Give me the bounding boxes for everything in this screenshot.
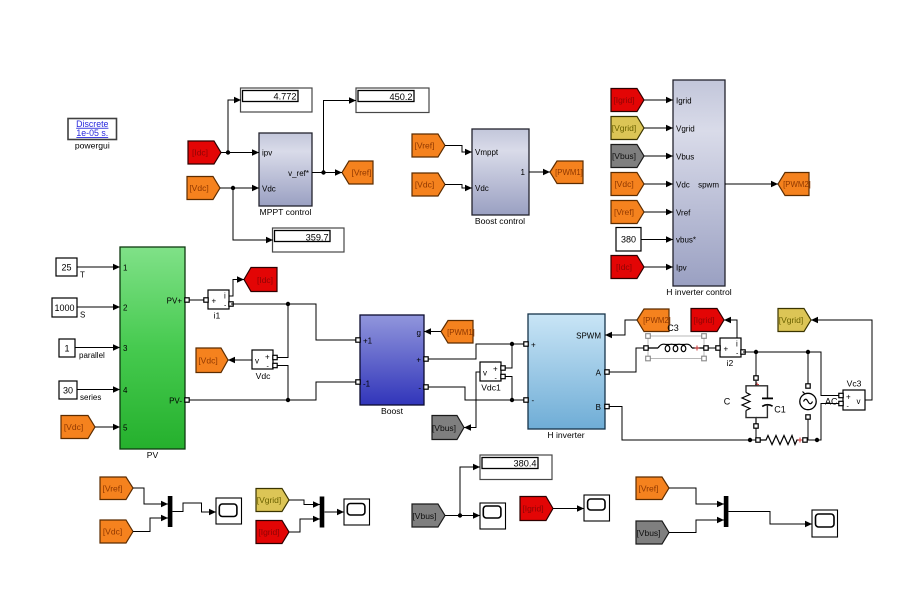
wire i2 minus to Vc3 plus (top rail) bbox=[743, 350, 839, 396]
constant 30 (series) bbox=[59, 381, 120, 402]
svg-text:2: 2 bbox=[123, 303, 128, 312]
from tag [Vdc] (Boost control) bbox=[412, 173, 445, 196]
current measurement i2 bbox=[716, 338, 745, 368]
from tag [Vref] (Boost control) bbox=[412, 134, 445, 157]
wire H inverter B to bottom rail bbox=[609, 407, 756, 443]
wire mux1 to scope1 bbox=[172, 503, 216, 515]
svg-text:[Vref]: [Vref] bbox=[639, 484, 659, 494]
svg-text:[Vgrid]: [Vgrid] bbox=[257, 495, 282, 505]
svg-text:MPPT control: MPPT control bbox=[260, 207, 312, 217]
wire Boost control out to PWM1 bbox=[529, 169, 550, 176]
wire Vdc1 v to [Vbus] bbox=[464, 372, 480, 431]
constant 380 bbox=[616, 228, 673, 252]
svg-text:+: + bbox=[846, 392, 851, 401]
scope 4 bbox=[584, 495, 610, 521]
svg-text:[Vgrid]: [Vgrid] bbox=[779, 315, 804, 325]
current measurement i1 bbox=[204, 290, 233, 321]
display 450.2 bbox=[356, 88, 429, 113]
from tag [Igrid] (scope group 2) bbox=[256, 516, 320, 544]
svg-text:parallel: parallel bbox=[79, 351, 105, 360]
wire i1 minus to bus with taps bbox=[231, 302, 356, 358]
scope 3 bbox=[480, 503, 506, 529]
voltage measurement Vdc bbox=[252, 350, 277, 381]
from tag [Igrid] (H ctrl) bbox=[611, 89, 673, 112]
display 4.772 bbox=[241, 88, 313, 112]
svg-text:[Idc]: [Idc] bbox=[616, 262, 632, 272]
from tag [Vgrid] (scope group 2) bbox=[256, 489, 320, 512]
voltage measurement Vdc1 bbox=[480, 362, 505, 393]
from tag [Vref] (H ctrl) bbox=[611, 201, 673, 224]
svg-text:[Igrid]: [Igrid] bbox=[613, 95, 634, 105]
svg-text:S: S bbox=[80, 311, 85, 320]
svg-text:[Idc]: [Idc] bbox=[192, 148, 208, 158]
wire PV- to bus bbox=[189, 366, 356, 403]
svg-text:[Idc]: [Idc] bbox=[257, 275, 273, 285]
svg-text:powergui: powergui bbox=[75, 141, 110, 151]
goto tag [Vgrid] (Vc3 out) bbox=[778, 309, 811, 332]
svg-text:+: + bbox=[493, 364, 498, 373]
svg-text:ipv: ipv bbox=[262, 149, 272, 158]
svg-text:i: i bbox=[736, 339, 738, 348]
svg-text:+: + bbox=[416, 355, 421, 364]
svg-text:4: 4 bbox=[123, 386, 128, 395]
wire Vc3 v to [Vgrid] bbox=[811, 317, 872, 400]
svg-text:SPWM: SPWM bbox=[576, 331, 601, 340]
svg-text:[Vdc]: [Vdc] bbox=[189, 183, 208, 193]
svg-text:[PWM1]: [PWM1] bbox=[555, 168, 583, 177]
from tag [Vref] (scope group 4) bbox=[636, 477, 724, 507]
subsystem Boost control bbox=[472, 129, 529, 226]
wire i2 signal to [Igrid] bbox=[724, 317, 737, 338]
from tag [Vdc] (PV input 5) bbox=[61, 416, 120, 439]
goto tag [Idc] (i1 out) bbox=[244, 268, 277, 292]
svg-text:spwm: spwm bbox=[698, 180, 719, 189]
svg-text:i2: i2 bbox=[727, 358, 734, 368]
wire mux2 to scope2 bbox=[324, 509, 344, 516]
scope 5 bbox=[812, 510, 838, 537]
from tag [Vbus] (display/scope group 3) bbox=[412, 504, 445, 527]
svg-text:Vdc: Vdc bbox=[262, 185, 276, 194]
from tag [Vbus] (scope group 4) bbox=[636, 517, 724, 544]
wire Boost - to H inverter - bbox=[428, 377, 526, 403]
goto tag [Vref] (MPPT out) bbox=[342, 161, 373, 184]
from tag [Vref] (scope group 1) bbox=[100, 477, 168, 507]
display 359.7 bbox=[273, 228, 345, 252]
svg-text:C3: C3 bbox=[667, 323, 679, 333]
svg-text:vbus*: vbus* bbox=[676, 236, 696, 245]
scope 1 bbox=[216, 498, 242, 524]
constant 25 (T) bbox=[56, 258, 120, 280]
wire H inverter A to C3 bbox=[609, 348, 644, 372]
svg-text:+: + bbox=[212, 297, 217, 306]
scope 2 bbox=[344, 499, 370, 525]
svg-text:[Vbus]: [Vbus] bbox=[636, 528, 660, 538]
constant 1 (parallel) bbox=[59, 339, 120, 360]
svg-text:380: 380 bbox=[621, 235, 636, 245]
svg-text:450.2: 450.2 bbox=[390, 92, 413, 102]
subsystem H inverter control bbox=[666, 80, 732, 297]
svg-text:Vdc1: Vdc1 bbox=[481, 383, 501, 393]
from tag [PWM2] (H inverter SPWM) bbox=[605, 309, 671, 338]
svg-text:[PWM2]: [PWM2] bbox=[783, 180, 811, 189]
svg-text:[Vref]: [Vref] bbox=[614, 207, 634, 217]
svg-text:-1: -1 bbox=[363, 379, 371, 388]
svg-text:PV-: PV- bbox=[169, 396, 182, 405]
AC source bbox=[800, 384, 838, 419]
wire Vdc to Boost control bbox=[445, 185, 472, 192]
mux 1 bbox=[168, 496, 173, 527]
svg-text:1: 1 bbox=[521, 168, 526, 177]
svg-text:Vdc: Vdc bbox=[676, 181, 690, 190]
bottom rail right segment to Vc3 minus bbox=[807, 404, 839, 443]
svg-text:359.7: 359.7 bbox=[306, 232, 329, 242]
svg-text:+1: +1 bbox=[363, 336, 373, 345]
svg-text:[Vdc]: [Vdc] bbox=[614, 179, 633, 189]
svg-text:Vmppt: Vmppt bbox=[475, 148, 499, 157]
svg-text:g: g bbox=[417, 328, 421, 337]
svg-text:Vdc: Vdc bbox=[475, 184, 489, 193]
svg-text:[Vdc]: [Vdc] bbox=[103, 527, 122, 537]
svg-text:[Vdc]: [Vdc] bbox=[64, 422, 83, 432]
svg-text:v: v bbox=[857, 397, 861, 406]
wire v_ref* to [Vref] with branch to display 450.2 bbox=[312, 97, 356, 176]
wire mux3 to scope5 bbox=[728, 512, 812, 528]
svg-text:380.4: 380.4 bbox=[514, 459, 537, 469]
wire PV+ to i1 bbox=[189, 299, 204, 301]
inductor C3 bbox=[644, 323, 708, 352]
goto tag [Vdc] (Vdc meas out) bbox=[196, 348, 228, 373]
svg-text:Vgrid: Vgrid bbox=[676, 125, 695, 134]
svg-text:4.772: 4.772 bbox=[274, 92, 297, 102]
svg-text:[Vref]: [Vref] bbox=[415, 141, 435, 151]
goto tag [Vbus] (Vdc1 out) bbox=[432, 416, 464, 440]
wire Vdc v out to [Vdc] bbox=[228, 357, 252, 364]
subsystem PV bbox=[120, 247, 189, 460]
svg-text:i: i bbox=[224, 291, 226, 300]
svg-text:B: B bbox=[596, 403, 601, 412]
svg-text:+: + bbox=[531, 340, 536, 349]
wires Vbus to display 380.4 and scope3 bbox=[445, 464, 480, 519]
svg-text:A: A bbox=[596, 368, 602, 377]
svg-text:-: - bbox=[418, 383, 421, 392]
svg-text:[Igrid]: [Igrid] bbox=[258, 527, 279, 537]
svg-text:+: + bbox=[265, 352, 270, 361]
svg-text:AC: AC bbox=[825, 397, 838, 407]
svg-text:1: 1 bbox=[123, 263, 128, 272]
svg-text:[Vref]: [Vref] bbox=[352, 168, 372, 178]
svg-text:[Vref]: [Vref] bbox=[103, 484, 123, 494]
svg-text:[Vgrid]: [Vgrid] bbox=[612, 123, 637, 133]
display 380.4 bbox=[480, 455, 552, 480]
svg-text:[PWM1]: [PWM1] bbox=[447, 328, 475, 337]
from tag [Idc] (MPPT ipv) bbox=[188, 141, 221, 164]
wire i1 signal to [Idc] bbox=[229, 276, 244, 296]
wire Boost + to H inverter + bbox=[428, 342, 526, 368]
svg-text:Vref: Vref bbox=[676, 209, 691, 218]
mux 2 bbox=[320, 497, 325, 528]
series resistor (bottom) bbox=[756, 436, 807, 445]
wire C3 to i2 bbox=[708, 347, 718, 349]
svg-text:[Vbus]: [Vbus] bbox=[432, 423, 456, 433]
svg-text:5: 5 bbox=[123, 423, 128, 432]
svg-text:v: v bbox=[483, 369, 487, 378]
mux 3 bbox=[724, 496, 729, 527]
svg-text:v_ref*: v_ref* bbox=[288, 169, 309, 178]
svg-text:[Vbus]: [Vbus] bbox=[612, 151, 636, 161]
svg-text:v: v bbox=[255, 357, 259, 366]
svg-text:i1: i1 bbox=[214, 311, 221, 321]
svg-text:1e-05 s.: 1e-05 s. bbox=[76, 128, 108, 138]
goto tag [Igrid] (i2 out) bbox=[691, 309, 724, 332]
svg-text:1: 1 bbox=[64, 343, 69, 353]
svg-text:1000: 1000 bbox=[54, 303, 74, 313]
from tag [PWM1] (Boost g) bbox=[424, 321, 475, 344]
svg-text:C1: C1 bbox=[774, 405, 786, 415]
wire Vdc to MPPT with branch to display 359.7 bbox=[220, 185, 273, 244]
from tag [Vdc] (scope group 1) bbox=[100, 515, 168, 543]
svg-text:-: - bbox=[532, 396, 535, 405]
svg-text:[Igrid]: [Igrid] bbox=[522, 504, 543, 514]
from tag [Vdc] (H ctrl) bbox=[611, 173, 673, 196]
from tag [Vbus] (H ctrl) bbox=[611, 145, 673, 168]
powergui block bbox=[68, 119, 117, 151]
from tag [Idc] (H ctrl) bbox=[611, 256, 673, 279]
svg-text:30: 30 bbox=[63, 385, 73, 395]
subsystem H inverter bbox=[524, 314, 609, 440]
svg-text:C: C bbox=[724, 397, 731, 407]
svg-text:Igrid: Igrid bbox=[676, 97, 692, 106]
svg-text:H inverter control: H inverter control bbox=[666, 287, 732, 297]
svg-text:3: 3 bbox=[123, 344, 128, 353]
from tag [Vdc] (MPPT Vdc) bbox=[187, 177, 220, 200]
from tag [Vgrid] (H ctrl) bbox=[611, 117, 673, 140]
voltage measurement Vc3 bbox=[839, 379, 865, 411]
svg-text:PV+: PV+ bbox=[167, 296, 183, 305]
svg-text:25: 25 bbox=[61, 263, 71, 273]
svg-text:Vbus: Vbus bbox=[676, 153, 694, 162]
svg-text:Vdc: Vdc bbox=[256, 371, 272, 381]
selection frame around C3 bbox=[646, 334, 707, 361]
wire Vref to Vmppt bbox=[445, 146, 472, 156]
svg-text:[Vbus]: [Vbus] bbox=[412, 511, 436, 521]
svg-text:[Vdc]: [Vdc] bbox=[415, 180, 434, 190]
svg-text:[Vdc]: [Vdc] bbox=[198, 356, 217, 366]
svg-text:+: + bbox=[724, 345, 729, 354]
svg-text:PV: PV bbox=[147, 450, 159, 460]
wire Idc to ipv with branch to display bbox=[221, 97, 259, 156]
subsystem MPPT control bbox=[259, 133, 312, 217]
parallel RC branch C / C1 bbox=[724, 376, 786, 428]
svg-text:Ipv: Ipv bbox=[676, 264, 687, 273]
constant 1000 (S) bbox=[52, 298, 120, 320]
svg-text:Boost control: Boost control bbox=[475, 216, 525, 226]
goto tag [PWM1] (Boost control out) bbox=[550, 161, 583, 184]
subsystem Boost bbox=[356, 315, 428, 416]
svg-text:T: T bbox=[80, 271, 85, 280]
svg-text:series: series bbox=[80, 393, 101, 402]
goto tag [PWM2] (H ctrl out) bbox=[725, 173, 811, 196]
svg-text:H inverter: H inverter bbox=[547, 430, 584, 440]
svg-text:[Igrid]: [Igrid] bbox=[693, 315, 714, 325]
svg-text:Vc3: Vc3 bbox=[847, 379, 862, 389]
from tag [Igrid] (scope group 3) bbox=[520, 497, 584, 521]
svg-text:Boost: Boost bbox=[381, 406, 404, 416]
